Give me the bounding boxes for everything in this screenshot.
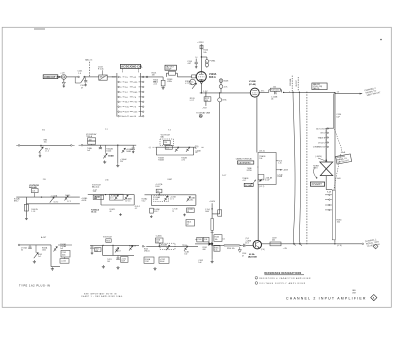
parallel RC C126 R126 bridge	[268, 90, 270, 93]
C126 cap on line	[274, 91, 276, 94]
svg-text:CIRCUIT NO: CIRCUIT NO	[44, 76, 60, 79]
long wavy wire A x293	[293, 93, 296, 246]
svg-text:VOLTAGE SUPPLY AMPLIFIER: VOLTAGE SUPPLY AMPLIFIER	[259, 282, 306, 285]
K467 far-right small box	[186, 220, 195, 227]
x56 ground	[119, 213, 122, 215]
diode CR160	[208, 242, 211, 246]
switch arm	[81, 78, 85, 83]
wire into diode	[195, 243, 208, 245]
R131 left cap and ground	[91, 245, 93, 247]
2B ground	[25, 217, 28, 220]
5-4005 box below right	[159, 257, 169, 263]
svg-text:+C105: +C105	[61, 260, 66, 262]
2B junction	[41, 197, 42, 198]
inner transistor dot	[260, 179, 262, 181]
T2 ground 2	[116, 164, 119, 167]
svg-text:1 C: 1 C	[125, 92, 129, 94]
K467 dashed box	[154, 195, 169, 201]
K467 riser box	[156, 189, 162, 193]
A10T cap	[29, 245, 31, 247]
x56 lower rail	[101, 204, 134, 206]
svg-text:120pF: 120pF	[166, 69, 172, 71]
svg-text:1M: 1M	[152, 75, 155, 77]
branch to decoupling cap C124	[201, 56, 207, 58]
5-4005 dashed box	[160, 243, 175, 249]
wafer left column	[116, 73, 118, 117]
svg-text:CAPACITORS/CAL: CAPACITORS/CAL	[236, 158, 252, 161]
5-4005 riser box	[156, 238, 164, 243]
svg-text:K467: K467	[168, 179, 172, 181]
R131 transistor 1	[115, 248, 119, 253]
svg-text:150x4: 150x4	[106, 150, 111, 152]
svg-text:47.1: 47.1	[261, 90, 265, 92]
svg-text:-100V: -100V	[283, 170, 289, 172]
T4 dashed box with resistor	[160, 139, 174, 146]
wafer row 8	[118, 111, 120, 113]
A10T ground	[33, 260, 36, 263]
svg-text:7 4: 7 4	[168, 130, 171, 132]
svg-text:INVERT: INVERT	[312, 183, 323, 186]
wafer right column	[140, 73, 142, 117]
cross tick	[211, 231, 214, 233]
wafer row 5	[118, 96, 120, 98]
svg-text:1.5k: 1.5k	[214, 249, 217, 251]
wire R103 to wafer	[107, 76, 117, 78]
svg-text:CHART 1 - REF AMPLIFIER DIAG.: CHART 1 - REF AMPLIFIER DIAG.	[81, 295, 124, 298]
dashed link BAL	[89, 62, 91, 77]
wafer row 2	[118, 81, 120, 83]
svg-text:B 1: B 1	[42, 129, 45, 131]
svg-text:(B)1114B: (B)1114B	[248, 256, 257, 259]
dashed linkage	[334, 129, 342, 190]
registration dash top-left	[34, 28, 45, 30]
svg-text:(-7.6): (-7.6)	[337, 245, 342, 247]
svg-text:96.1.4: 96.1.4	[91, 210, 96, 213]
T4 top wire	[156, 146, 193, 148]
5-4005 lead-in	[142, 246, 144, 248]
wire grid stopper to tube	[195, 76, 198, 78]
svg-text:NORMAL: NORMAL	[289, 78, 292, 86]
K467 grounds	[150, 215, 153, 217]
boxed label INVERT dark	[310, 182, 324, 186]
svg-text:100: 100	[107, 261, 110, 263]
ref symbol circle-triangle	[199, 114, 202, 117]
cathode rail	[200, 92, 251, 94]
A10T transistor	[54, 247, 58, 252]
wafer row 4	[118, 91, 120, 93]
wire x212 down	[211, 203, 213, 218]
R131 wire	[90, 244, 139, 246]
T2 cap drop	[99, 145, 101, 147]
5-4005 wire	[147, 245, 198, 247]
svg-text:+90.2B: +90.2B	[81, 200, 87, 202]
note line 1	[255, 277, 258, 280]
note line 2	[255, 282, 258, 285]
svg-text:1.05: 1.05	[32, 190, 35, 192]
svg-text:100: 100	[89, 139, 92, 141]
output end circle	[362, 243, 364, 245]
svg-text:CH 1/2 C: CH 1/2 C	[318, 142, 326, 144]
svg-text:4.2: 4.2	[135, 208, 137, 210]
svg-text:46: 46	[110, 211, 112, 213]
svg-text:1.3k: 1.3k	[204, 239, 207, 241]
svg-text:CALIBRATED: CALIBRATED	[238, 161, 251, 164]
svg-text:100F: 100F	[121, 260, 125, 262]
svg-text:R131: R131	[106, 240, 110, 242]
B1 pot ground	[39, 152, 41, 155]
svg-text:1.5V: 1.5V	[203, 91, 208, 93]
svg-text:0.1: 0.1	[223, 238, 226, 240]
arrowhead at signal out	[360, 93, 363, 95]
ground below C102	[85, 82, 87, 83]
svg-text:(+): (+)	[149, 147, 152, 149]
svg-text:+1.0.7: +1.0.7	[93, 189, 98, 191]
coupling switch SW101 contacts	[78, 76, 80, 78]
A10T pot	[34, 253, 38, 259]
T2 transistor 1	[103, 154, 107, 159]
wafer contact	[329, 194, 330, 195]
T2 ground left	[103, 160, 106, 163]
svg-text:R 1.0k: R 1.0k	[98, 69, 104, 71]
jog x220 to x212	[212, 213, 220, 215]
wire to diode cluster	[211, 230, 213, 244]
vertical inductor L160	[211, 219, 214, 231]
svg-text:1967: 1967	[352, 292, 356, 294]
ground below R102	[162, 86, 165, 89]
svg-text:7.5C: 7.5C	[125, 107, 130, 109]
B1 junction dot	[40, 145, 41, 146]
svg-text:5-4005: 5-4005	[156, 235, 162, 237]
pin right upper	[276, 160, 278, 162]
5-4005 box below left	[144, 257, 154, 263]
switch branch L	[74, 77, 76, 83]
long dashed wire x307	[306, 92, 308, 245]
svg-text:4.7k: 4.7k	[181, 160, 184, 162]
2B left vertical	[25, 197, 27, 217]
svg-text:4: 4	[375, 246, 376, 248]
capacitor C102 below switch	[85, 78, 87, 81]
svg-text:TACH: TACH	[100, 76, 105, 79]
T4 transistor 2	[186, 147, 190, 152]
svg-text:2x.1: 2x.1	[38, 256, 41, 258]
R131 bottom rail	[103, 254, 134, 256]
svg-text:BAL: BAL	[161, 135, 164, 138]
svg-text:R164 10k: R164 10k	[227, 248, 235, 250]
x56 right transistor	[124, 195, 128, 200]
svg-text:1.5: 1.5	[337, 92, 340, 94]
svg-text:R100B: R100B	[158, 160, 164, 162]
svg-text:BAL (4-6): BAL (4-6)	[92, 185, 100, 188]
svg-text:1uF: 1uF	[60, 248, 63, 250]
R131 right vertical	[112, 245, 114, 255]
svg-text:98: 98	[187, 211, 189, 213]
svg-text:(-100V): (-100V)	[315, 156, 322, 158]
R131 cap below	[116, 258, 119, 260]
companion envelope small	[190, 79, 196, 85]
svg-text:100k: 100k	[42, 249, 46, 251]
svg-text:+R.02B: +R.02B	[187, 209, 192, 211]
2B main wire	[16, 196, 80, 198]
A10T wire up right	[64, 257, 66, 259]
title diamond	[371, 294, 377, 300]
dashed risers to AM-262	[291, 76, 293, 92]
svg-text:(7.6): (7.6)	[261, 249, 265, 251]
K467 right transistor	[187, 197, 191, 202]
svg-text:820: 820	[205, 100, 208, 102]
A10T right box 2	[60, 259, 69, 264]
5-4005 transistor right	[184, 246, 188, 251]
svg-text:10k: 10k	[156, 241, 159, 243]
A10T ground 2	[51, 267, 54, 270]
grid stopper R105	[192, 75, 196, 78]
svg-text:10k: 10k	[203, 52, 206, 54]
svg-text:TRIG: TRIG	[313, 168, 318, 170]
svg-text:4.7k: 4.7k	[224, 86, 228, 88]
2B bottom rail	[26, 203, 79, 205]
svg-text:CHANNEL 2 INPUT AMPLIFIER: CHANNEL 2 INPUT AMPLIFIER	[286, 297, 367, 301]
dashed drops from label box	[121, 69, 123, 73]
x56 wide resistor box	[93, 195, 103, 199]
wire connector to switch	[66, 76, 78, 78]
connector J20	[61, 75, 66, 80]
svg-text:C160: C160	[197, 239, 201, 241]
lower wafer strip	[332, 190, 335, 240]
slanted label channel2 signal top	[364, 86, 381, 98]
svg-text:+C134: +C134	[121, 258, 126, 260]
long wire x220 down	[219, 93, 221, 98]
svg-text:COMBINED B.0: COMBINED B.0	[313, 147, 325, 149]
plate supply riser	[200, 44, 202, 71]
wire cal box to output stage	[257, 184, 259, 240]
R131 left vertical	[102, 245, 104, 255]
second electrolytic circle	[205, 63, 208, 66]
dark boxed label above bridge	[165, 65, 176, 70]
svg-text:TYPE 1A2 PLUG-IN: TYPE 1A2 PLUG-IN	[19, 283, 50, 287]
wire junction to inductor	[212, 244, 224, 246]
svg-text:1.51.7: 1.51.7	[154, 211, 159, 213]
svg-text:(87+88): (87+88)	[249, 84, 256, 86]
arrow at bowtie top	[325, 159, 327, 162]
bowtie cross diagonals	[320, 162, 333, 176]
wafer row 9	[118, 115, 120, 117]
output wire right	[262, 243, 362, 245]
svg-text:x 56: x 56	[105, 180, 109, 182]
svg-text:TRACE B: TRACE B	[318, 136, 326, 139]
2B pot	[50, 197, 54, 203]
R131 transistor 2	[129, 246, 133, 251]
5-4005 ground	[153, 267, 156, 270]
svg-text:30: 30	[21, 249, 23, 251]
ground arrow below C164	[239, 247, 241, 250]
slanted trigger label boxed	[336, 154, 352, 164]
wire wafer to junction	[141, 76, 163, 78]
svg-text:(7): (7)	[271, 99, 274, 101]
svg-text:DC BAL: DC BAL	[245, 184, 253, 187]
svg-text:100k: 100k	[62, 254, 66, 256]
A10T bottom rail	[51, 266, 60, 268]
svg-text:680: 680	[203, 249, 206, 251]
svg-text:x 1.5: x 1.5	[45, 151, 49, 153]
svg-text:TP140: TP140	[182, 245, 187, 247]
tube V123A internals	[198, 76, 204, 78]
resistor box on x220 bottom	[218, 210, 222, 216]
svg-text:47.5: 47.5	[166, 147, 169, 149]
svg-text:100: 100	[273, 87, 276, 89]
2B vertical box	[24, 204, 28, 211]
output transistor Q164	[253, 241, 261, 249]
curved adjust arrow	[251, 180, 256, 185]
svg-text:B96.2: B96.2	[14, 200, 18, 202]
svg-text:+100V: +100V	[209, 201, 216, 203]
cathode pot R120	[192, 83, 196, 89]
svg-text:+C1.05A: +C1.05A	[51, 195, 58, 198]
svg-text:40k: 40k	[272, 240, 275, 242]
svg-text:10k: 10k	[259, 158, 262, 160]
box below junction	[214, 246, 220, 251]
svg-text:100uF: 100uF	[160, 261, 165, 263]
svg-text:(1.2.7): (1.2.7)	[259, 186, 265, 188]
svg-text:15k: 15k	[44, 142, 47, 144]
junction dots output row	[293, 243, 294, 244]
svg-text:-75V: -75V	[202, 107, 207, 109]
long wire x335 lower	[334, 240, 336, 243]
wafer contact	[329, 199, 330, 200]
parallel RC bridge C107 R107	[165, 73, 167, 77]
svg-text:4.7.5: 4.7.5	[110, 198, 114, 200]
junction after RC	[283, 92, 284, 93]
2B header box	[31, 189, 38, 193]
svg-text:47: 47	[242, 255, 244, 257]
attenuator switch label box VOLTS/CM	[120, 64, 140, 68]
T4 bottom rail	[156, 154, 193, 156]
A10T wire	[18, 244, 20, 246]
R131 grounds	[102, 265, 105, 268]
riser above rail	[220, 79, 222, 85]
B1 pot	[39, 147, 43, 153]
resistor boxes R160 R161	[197, 237, 203, 242]
neon bulb B108 upper	[219, 79, 223, 83]
svg-text:ACT LOCO: ACT LOCO	[316, 127, 325, 130]
svg-text:4.8.1: 4.8.1	[190, 199, 194, 201]
svg-text:+225V: +225V	[197, 42, 204, 44]
T2 wire	[83, 144, 133, 146]
K467 pot in dashed box	[164, 196, 168, 201]
box R163 right of junction	[214, 235, 222, 242]
wafer row 6	[118, 101, 120, 103]
svg-text:6U8 A: 6U8 A	[209, 76, 216, 79]
cap C164	[241, 244, 243, 246]
T4 transistor 1	[175, 147, 179, 152]
arrow -100V right	[276, 169, 282, 171]
svg-text:10k: 10k	[157, 191, 160, 193]
component circle on x220	[218, 98, 222, 102]
T2 junction drop 2	[117, 145, 118, 146]
svg-text:1.2k: 1.2k	[278, 162, 281, 164]
wafer contact	[329, 204, 330, 205]
grid resistor box R103	[99, 75, 107, 80]
B1 lead dashes	[16, 144, 18, 146]
K467 below-rail boxed label right	[187, 208, 195, 213]
bowtie switch lower triangle	[320, 169, 333, 176]
R131 left boxed label	[95, 248, 101, 252]
x56 main wire	[88, 194, 134, 196]
ground below connector	[63, 79, 65, 82]
svg-text:9.4.2: 9.4.2	[142, 200, 146, 202]
cal box outline	[258, 153, 276, 185]
svg-text:67.4: 67.4	[245, 242, 248, 244]
wafer row 1	[118, 76, 120, 78]
svg-text:100: 100	[184, 254, 187, 256]
wire cap to transistor	[245, 244, 253, 246]
wafer row 7	[118, 106, 120, 108]
neon bulb B109 lower	[219, 85, 223, 89]
svg-text:TO DELAY LINE: TO DELAY LINE	[196, 111, 211, 114]
inductor L164 long arrow	[224, 245, 241, 246]
svg-text:1R1.8: 1R1.8	[116, 250, 121, 252]
svg-text:INVERT: INVERT	[296, 79, 298, 86]
svg-text:1.7.1: 1.7.1	[170, 199, 174, 201]
svg-text:R.67 100k: R.67 100k	[271, 90, 279, 92]
svg-text:1.7.2: 1.7.2	[67, 201, 71, 203]
tube V123A envelope	[196, 72, 206, 82]
svg-text:7 2: 7 2	[105, 129, 108, 131]
svg-text:R13 1.1k: R13 1.1k	[129, 245, 136, 247]
long wire x335 upper	[334, 94, 336, 191]
T2 end ground	[132, 150, 135, 152]
registration dot top-right	[380, 39, 382, 41]
boxed label AM-262	[312, 83, 327, 90]
V123B cathode drop to cal box	[256, 97, 258, 152]
svg-text:62.5A: 62.5A	[249, 253, 255, 256]
inner sub box	[258, 175, 264, 180]
svg-text:CH1 L: CH1 L	[320, 133, 325, 135]
A10T vertical	[50, 245, 52, 267]
svg-text:16k: 16k	[215, 239, 218, 241]
svg-text:R.02.5: R.02.5	[65, 195, 70, 197]
svg-text:10.7.2: 10.7.2	[54, 201, 59, 203]
x56 inner box with pot	[110, 194, 124, 200]
svg-text:A-10T: A-10T	[41, 236, 47, 239]
2B transistor	[65, 196, 69, 201]
K467 main wire	[145, 194, 196, 196]
T4 box on wire	[165, 145, 172, 149]
R126 box on bridge	[270, 88, 280, 91]
wire input to connector	[58, 76, 62, 78]
B1 wire	[20, 144, 71, 146]
svg-text:RESISTORS & CAPACITOR AMPLIFIE: RESISTORS & CAPACITOR AMPLIFIER	[259, 277, 311, 280]
upper feed wire to switch rows	[333, 94, 335, 129]
svg-text:750: 750	[164, 142, 167, 144]
junction on riser	[201, 56, 202, 57]
svg-text:DR14.0: DR14.0	[144, 250, 150, 252]
wire jog and run to arrow	[284, 91, 290, 93]
svg-text:100AB: 100AB	[108, 154, 115, 157]
line below bowtie	[325, 176, 327, 190]
svg-text:4.7: 4.7	[187, 224, 189, 226]
K467 bottom rail	[151, 204, 196, 206]
svg-text:1.1.8: 1.1.8	[31, 211, 35, 213]
K467 below-rail box left	[150, 208, 154, 213]
K467 left vertical	[150, 195, 152, 206]
resistor R124	[200, 45, 203, 49]
svg-text:1.0.8: 1.0.8	[155, 199, 159, 201]
svg-text:R.04.7: R.04.7	[155, 186, 160, 188]
svg-text:68: 68	[195, 152, 197, 154]
dark boxed annotation	[238, 161, 254, 164]
grid leak branch R102	[162, 77, 164, 80]
svg-text:2.2M: 2.2M	[145, 261, 149, 263]
tube cathode spout	[200, 81, 203, 84]
